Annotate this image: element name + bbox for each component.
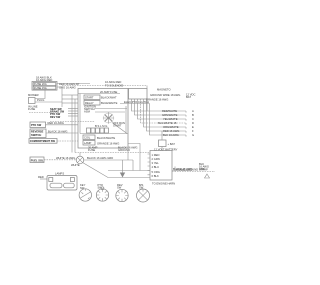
svg-text:F: F <box>192 129 194 133</box>
wire row7 <box>150 104 187 135</box>
svg-text:ELEC PTO CLUTCH: ELEC PTO CLUTCH <box>124 100 149 104</box>
svg-text:RED 16 AWG: RED 16 AWG <box>163 129 179 133</box>
wire <box>68 115 78 117</box>
wire row6 <box>147 99 187 131</box>
svg-text:BLACK 16 AWG GRD: BLACK 16 AWG GRD <box>87 156 113 160</box>
svg-text:BLU/WHITE 18: BLU/WHITE 18 <box>158 121 177 125</box>
wire from fuse to module <box>57 83 90 85</box>
svg-text:SWITCH: SWITCH <box>31 133 41 137</box>
wire bottom long <box>108 170 150 172</box>
wire <box>125 106 127 133</box>
svg-text:BLUE/WHITE: BLUE/WHITE <box>101 101 118 105</box>
relay K1 <box>84 95 100 100</box>
svg-text:ASM: ASM <box>84 110 91 114</box>
ground wire verticals <box>122 160 124 173</box>
switch S3 <box>30 129 46 138</box>
wire <box>84 159 133 161</box>
svg-text:12 VOLT BATTERY: 12 VOLT BATTERY <box>154 148 178 152</box>
svg-text:FUEL SOL: FUEL SOL <box>31 158 44 162</box>
svg-text:GRD: GRD <box>199 167 205 171</box>
fuse holder F1 <box>32 82 57 91</box>
svg-text:D: D <box>192 121 194 125</box>
wire row5 <box>144 99 187 127</box>
svg-text:SW: SW <box>117 185 122 189</box>
wire <box>68 113 78 115</box>
svg-text:3 YEL: 3 YEL <box>152 161 160 165</box>
svg-text:START: START <box>113 123 122 127</box>
wire <box>120 103 150 105</box>
svg-text:ORG/WHITE: ORG/WHITE <box>163 125 179 129</box>
svg-text:RED 16 AWG: RED 16 AWG <box>48 121 64 125</box>
wire <box>172 170 192 172</box>
svg-text:GROUND WIRE 18 AWG: GROUND WIRE 18 AWG <box>150 93 180 97</box>
svg-text:REV SW: REV SW <box>50 115 61 119</box>
svg-text:1 RED: 1 RED <box>152 153 160 157</box>
wire row1 <box>132 99 187 111</box>
wire bottom bus <box>75 152 150 154</box>
wire <box>146 86 148 89</box>
wire diagonal to corner <box>112 123 127 134</box>
wire <box>57 140 78 142</box>
ignition module U1 <box>78 89 128 149</box>
connector view CV1 <box>79 189 91 201</box>
wire row2 <box>135 99 187 115</box>
svg-text:RELAY: RELAY <box>85 101 94 105</box>
svg-text:COIL: COIL <box>84 136 91 140</box>
wire <box>68 108 78 110</box>
wire row3 <box>138 99 187 119</box>
switch S2 <box>30 122 46 128</box>
headlamp assembly E1 <box>47 176 77 191</box>
svg-text:E: E <box>192 125 194 129</box>
svg-text:FUSE 20A: FUSE 20A <box>34 82 47 86</box>
svg-text:YEL/WHITE: YEL/WHITE <box>163 117 178 121</box>
svg-text:2 GRN: 2 GRN <box>152 157 160 161</box>
wire <box>68 110 78 112</box>
wire <box>40 178 47 180</box>
svg-text:FUSE 15A: FUSE 15A <box>34 86 47 90</box>
wire rung <box>62 94 78 96</box>
svg-text:MOWER: MOWER <box>28 93 39 97</box>
svg-text:G: G <box>192 133 194 137</box>
wire top feed B <box>62 85 147 87</box>
svg-text:BLACK 16 AWG: BLACK 16 AWG <box>48 129 67 133</box>
svg-text:ORG 16 AWG: ORG 16 AWG <box>59 86 76 90</box>
svg-text:5 ORG: 5 ORG <box>152 170 160 174</box>
battery feed wire <box>161 131 163 140</box>
wire tick <box>174 167 176 172</box>
wire <box>50 121 95 123</box>
svg-text:B S L M G: B S L M G <box>95 124 107 128</box>
relay K2 <box>84 101 100 106</box>
wire <box>161 147 163 151</box>
frame ground lug <box>205 174 210 178</box>
main connector CN1 <box>150 151 172 181</box>
svg-text:6 BLK: 6 BLK <box>152 174 160 178</box>
svg-text:4 BLU: 4 BLU <box>152 165 160 169</box>
svg-text:WHITE: WHITE <box>71 163 80 167</box>
wire rung <box>62 98 78 100</box>
wire <box>74 99 76 153</box>
connector view CV4 <box>137 189 150 202</box>
svg-text:MAGNETO: MAGNETO <box>157 88 171 92</box>
svg-text:A: A <box>192 109 194 113</box>
svg-text:COMPARTMENT SW: COMPARTMENT SW <box>30 139 56 143</box>
wire <box>146 99 148 111</box>
svg-text:BLK 16 AWG: BLK 16 AWG <box>163 133 179 137</box>
svg-text:C: C <box>192 117 194 121</box>
wire <box>57 87 62 107</box>
fuel solenoid FS1 <box>30 157 44 163</box>
wire <box>71 95 73 153</box>
battery B1 <box>159 140 167 147</box>
wire <box>95 111 125 113</box>
svg-text:RED: RED <box>38 175 44 179</box>
solenoid sub-box <box>129 89 148 100</box>
wire <box>132 160 134 171</box>
inner divider wire <box>78 93 120 95</box>
bottom right long wire <box>172 171 215 173</box>
wire into splice <box>79 153 81 157</box>
wire <box>95 108 127 110</box>
svg-text:GRN/WHITE: GRN/WHITE <box>162 113 178 117</box>
svg-text:BLACK/WHT: BLACK/WHT <box>101 96 117 100</box>
wire <box>29 112 50 114</box>
svg-text:START: START <box>85 95 94 99</box>
connector P2 <box>29 98 36 104</box>
wire <box>128 144 140 171</box>
svg-text:RED/WHITE: RED/WHITE <box>162 109 177 113</box>
ladder end hooks <box>185 111 187 137</box>
interlock switch stack <box>50 107 68 118</box>
svg-text:TO SOLENOID: TO SOLENOID <box>105 84 123 88</box>
svg-text:ORANGE 16 AWG: ORANGE 16 AWG <box>97 141 119 145</box>
connector view CV2 <box>96 189 108 201</box>
wire rung <box>62 102 78 104</box>
svg-text:16 AWG RED: 16 AWG RED <box>105 80 121 84</box>
svg-text:BLACK/WHITE: BLACK/WHITE <box>97 136 115 140</box>
svg-text:ORANGE 16 AWG: ORANGE 16 AWG <box>146 98 168 102</box>
svg-text:TO ENGINE HARN: TO ENGINE HARN <box>152 182 175 186</box>
svg-text:FUSE: FUSE <box>28 107 35 111</box>
svg-text:LAMPS: LAMPS <box>55 172 64 176</box>
ignition switch S1 rotary face <box>104 113 114 123</box>
connector view CV3 <box>116 189 128 201</box>
svg-text:BAT: BAT <box>186 95 191 99</box>
svg-text:20 AMP FUSE: 20 AMP FUSE <box>100 90 117 94</box>
relay K4 <box>83 141 95 146</box>
wire <box>46 132 78 134</box>
svg-text:+ BAT: + BAT <box>168 142 176 146</box>
svg-text:LAMP: LAMP <box>84 141 92 145</box>
terminal strip TB1 <box>80 133 128 135</box>
svg-text:REVERSE: REVERSE <box>31 129 44 133</box>
inner vertical <box>79 94 81 134</box>
svg-text:FUSE: FUSE <box>88 148 95 152</box>
compartment switch S4 <box>29 139 57 144</box>
svg-text:WHITE 16 AWG: WHITE 16 AWG <box>56 156 75 160</box>
wire <box>46 124 79 126</box>
splice connector X1 <box>76 156 84 164</box>
svg-text:PTO SW: PTO SW <box>31 123 42 127</box>
wire <box>44 159 76 161</box>
wire <box>127 148 129 160</box>
wire <box>35 101 62 103</box>
wire <box>35 90 45 99</box>
ground symbol <box>120 173 125 178</box>
wire diagonal <box>83 163 150 178</box>
wire row4 <box>141 99 187 123</box>
relay K3 <box>83 135 95 140</box>
svg-text:B: B <box>192 113 194 117</box>
